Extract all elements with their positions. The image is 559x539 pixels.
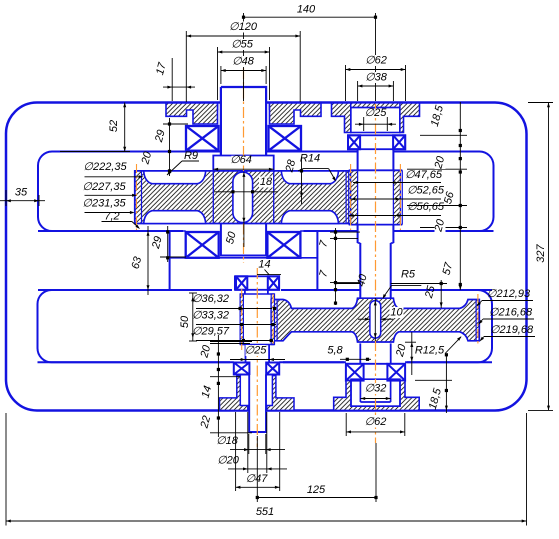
svg-text:10: 10 <box>390 306 403 318</box>
dim 7,2 <box>102 221 132 223</box>
gear1 web recess top-left <box>144 171 206 184</box>
boss pocket bottom <box>170 257 318 259</box>
bearing boss wall right edge <box>316 231 318 290</box>
svg-text:18: 18 <box>260 176 273 188</box>
svg-text:∅20: ∅20 <box>217 454 240 466</box>
svg-text:35: 35 <box>15 186 28 198</box>
shaft1 centerline <box>243 68 245 171</box>
pinion3 teeth hatched <box>240 294 243 345</box>
svg-text:∅33,32: ∅33,32 <box>192 309 229 321</box>
svg-text:∅38: ∅38 <box>365 71 388 83</box>
label 14 bearing3 <box>257 274 281 276</box>
gear2/pinion3 mesh pitch line <box>272 294 274 346</box>
bearing cap3 bottom right hatched (flange + cup wall) <box>267 376 294 411</box>
dim 125 <box>257 497 376 499</box>
dim 10 key width <box>358 318 370 320</box>
dim d64 hub <box>213 168 273 170</box>
shaft3 lower bearing right <box>266 363 279 375</box>
dim 35 left wall <box>0 200 45 202</box>
svg-text:140: 140 <box>297 3 316 15</box>
boss pocket top segments <box>170 230 186 232</box>
gear1 hub side lines <box>212 171 214 224</box>
pinion2 labels right <box>353 182 441 184</box>
gear1 web recess bottom-left <box>144 211 206 224</box>
dim 551 <box>6 520 527 522</box>
dim 17 <box>163 86 195 88</box>
pinion2 teeth hatched <box>351 170 358 224</box>
bearing cap1 right hatched <box>270 103 322 124</box>
svg-text:R5: R5 <box>401 268 416 280</box>
dim 50 key gear1 <box>243 172 245 247</box>
cap2 inner recess <box>351 108 400 133</box>
svg-text:∅36,32: ∅36,32 <box>192 293 229 305</box>
bearing cap2 top flange left hatched <box>332 103 351 133</box>
bearing cap2 top flange right hatched <box>400 103 420 133</box>
dim d38 top <box>358 85 394 87</box>
svg-text:∅216,68: ∅216,68 <box>489 306 533 318</box>
svg-text:∅25: ∅25 <box>365 107 388 119</box>
shaft2 end d32 in recess <box>359 381 361 402</box>
svg-text:∅47,65: ∅47,65 <box>405 169 443 181</box>
dim d32 <box>360 398 390 400</box>
dim 25 right of gear2 <box>440 280 442 308</box>
label R5 <box>392 285 422 287</box>
bearing boss wall left edge <box>169 231 171 290</box>
pinion3 labels <box>196 308 272 310</box>
gear1 hub top d64 <box>213 156 273 172</box>
dim 28 <box>301 158 303 204</box>
svg-text:∅48: ∅48 <box>232 55 255 67</box>
gear1 body hatched <box>135 171 353 224</box>
housing outer wall <box>6 103 527 411</box>
upper cavity floor segments <box>38 230 170 232</box>
dim 327 <box>548 103 550 411</box>
dim d25 shaft3 <box>230 359 285 361</box>
gear1 labels left <box>85 176 142 178</box>
shaft3 d18 stub <box>250 375 265 431</box>
chain 7 and 7 shaft2 <box>335 228 337 305</box>
lower cavity floor segments <box>38 361 234 363</box>
dim d120 <box>186 35 300 37</box>
svg-text:52: 52 <box>108 120 120 132</box>
shaft3 upper bearing row <box>235 276 279 290</box>
shaft3 centerline <box>256 268 258 447</box>
svg-text:R12,5: R12,5 <box>415 344 445 356</box>
gear1 key 50x18 <box>233 172 253 223</box>
dim d25 shaft2 top <box>363 117 365 131</box>
cap2 bottom recess <box>351 379 400 406</box>
svg-text:∅212,93: ∅212,93 <box>487 288 531 300</box>
upper cavity top edge segments restored <box>183 151 221 153</box>
svg-text:∅29,57: ∅29,57 <box>192 325 230 337</box>
svg-text:∅120: ∅120 <box>229 21 258 33</box>
svg-text:∅64: ∅64 <box>230 154 252 166</box>
label R9 <box>182 160 199 162</box>
shaft2 lower bearing right <box>387 364 405 381</box>
svg-text:551: 551 <box>256 506 274 518</box>
left chain 29 lower <box>167 226 169 262</box>
svg-text:∅62: ∅62 <box>365 416 387 428</box>
svg-text:∅222,35: ∅222,35 <box>83 161 127 173</box>
dim 52 left <box>124 103 126 152</box>
right chain <box>459 102 461 290</box>
shaft2 middle d38 then neck <box>357 225 359 243</box>
svg-text:∅52,65: ∅52,65 <box>407 184 445 196</box>
svg-text:327: 327 <box>535 243 547 262</box>
dim 18 key width <box>214 191 278 193</box>
dim d47 <box>236 486 280 488</box>
shaft3 neck below upper bearing <box>244 290 246 294</box>
svg-text:∅56,65: ∅56,65 <box>407 201 445 213</box>
dim 5,8 <box>340 358 371 360</box>
svg-text:R14: R14 <box>300 153 320 165</box>
left lower chain 20 14 22 <box>217 335 219 437</box>
pinion2 faces <box>349 169 403 171</box>
cap1 bore edges d55 <box>217 103 219 111</box>
dim 63 <box>147 226 149 295</box>
dim d55 <box>218 51 270 53</box>
svg-text:∅25: ∅25 <box>245 344 268 356</box>
lower cavity opening <box>38 290 493 362</box>
pinion3 pitch line left <box>241 289 243 350</box>
dim d48 <box>221 70 266 72</box>
label R14 <box>303 168 329 170</box>
lower cavity ceiling segments <box>38 289 232 291</box>
gear1 web recess bottom-right <box>281 211 338 224</box>
svg-text:R9: R9 <box>184 150 198 162</box>
pinion2 pitch line right <box>399 164 401 230</box>
shaft1 output end d48 <box>222 88 265 155</box>
dim 20 gear2 right <box>411 332 413 375</box>
svg-text:∅227,35: ∅227,35 <box>82 181 126 193</box>
dim d62 bottom <box>346 431 405 433</box>
upper cavity opening <box>38 152 494 232</box>
shaft1 upper bearing left <box>186 126 219 151</box>
gear2 key 40x10 <box>370 301 381 339</box>
svg-text:14: 14 <box>258 258 270 270</box>
shaft3 lower bearing left <box>234 363 250 375</box>
shaft2 d38 upper sides <box>357 149 359 170</box>
bearing cap2 bottom body hatched <box>334 381 420 411</box>
svg-text:7,2: 7,2 <box>104 210 119 222</box>
dim d20 <box>228 468 287 470</box>
bearing cap3 bottom left hatched (flange + cup wall) <box>220 376 248 411</box>
svg-text:∅32: ∅32 <box>365 382 387 394</box>
gear2 body hatched <box>271 298 479 342</box>
svg-text:∅231,35: ∅231,35 <box>82 197 126 209</box>
dim 140 <box>244 16 376 18</box>
bearing cap1 left hatched <box>166 103 218 124</box>
gear1 web recess top-right <box>281 171 338 184</box>
shaft2 upper bearing row <box>348 135 405 149</box>
svg-text:50: 50 <box>179 315 191 328</box>
shaft2 shoulder below gear2 <box>359 343 361 363</box>
shaft2 lower bearing connecting line <box>364 363 388 365</box>
pinion3 faces <box>240 293 274 295</box>
shaft1 lower bearing right <box>267 232 300 258</box>
shaft2 centerline <box>375 104 377 299</box>
gear2 labels right <box>482 300 533 302</box>
left chain 29 and 20 upper <box>169 118 171 176</box>
dim d18 <box>230 449 285 451</box>
white-out zones where parts cross cavity outlines <box>183 120 304 260</box>
shaft1 upper bearing right <box>269 126 302 151</box>
shaft1 lower bearing left <box>186 232 219 258</box>
svg-text:∅219,68: ∅219,68 <box>490 324 534 336</box>
shaft3 d25 neck <box>245 345 247 363</box>
gear2 pitch line right <box>477 294 479 346</box>
svg-text:125: 125 <box>307 484 326 496</box>
pinion2 tip lines <box>348 170 350 224</box>
dim 18,5 cap2 bottom <box>445 354 447 413</box>
shaft1 lower section <box>221 224 266 256</box>
dim 50 pinion3 <box>192 293 194 341</box>
gear1/pinion2 mesh pitch line <box>350 164 352 230</box>
label R12,5 <box>417 355 443 357</box>
gear1 pitch line left <box>136 164 138 230</box>
dim d62 top <box>346 69 406 71</box>
cap2 top wall above recess <box>351 103 400 108</box>
dim 40 key gear2 <box>374 298 376 341</box>
shaft2 lower bearing left <box>346 364 364 381</box>
gear1 tooth root lines <box>141 171 143 224</box>
svg-text:∅62: ∅62 <box>365 54 387 66</box>
svg-text:5,8: 5,8 <box>327 344 343 356</box>
svg-text:∅55: ∅55 <box>231 38 254 50</box>
gear2 tooth root lines <box>276 300 278 341</box>
